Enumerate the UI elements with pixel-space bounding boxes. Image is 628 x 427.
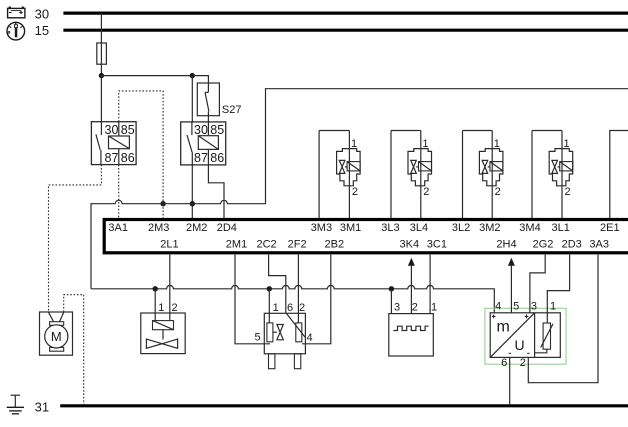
svg-text:6: 6: [501, 357, 507, 369]
svg-text:2G2: 2G2: [533, 238, 554, 250]
svg-text:3L3: 3L3: [381, 222, 399, 234]
svg-text:2H4: 2H4: [496, 238, 516, 250]
wire ECU 2M1 to N71 pin5: [235, 255, 270, 344]
idle actuator N71: [254, 302, 312, 368]
wire G70 pin5 to ECU 2H4: [510, 262, 512, 313]
dotted wire node to ECU pin 2M3: [162, 204, 164, 218]
motor M: [40, 312, 73, 355]
svg-text:1: 1: [351, 138, 357, 150]
svg-text:2E1: 2E1: [600, 222, 620, 234]
wire G70 pin2 to ECU 3A3: [528, 255, 598, 383]
svg-text:2M2: 2M2: [186, 222, 207, 234]
svg-text:2: 2: [172, 302, 178, 314]
bus 15: [63, 29, 628, 32]
node rail to sensor pin3: [389, 286, 394, 291]
node relay2 branch: [190, 73, 195, 78]
svg-text:1: 1: [494, 138, 500, 150]
svg-text:1: 1: [273, 302, 279, 314]
dotted wire relay1 pin86 to ECU pin 3A1: [118, 165, 120, 218]
svg-text:2B2: 2B2: [325, 238, 345, 250]
wire junction to relay1 pin30: [100, 76, 102, 122]
wire relay2 pin86 to ECU pin 2D4: [208, 165, 224, 218]
node rail junction 2M2: [190, 201, 195, 206]
fuse F: [97, 43, 107, 64]
svg-text:m: m: [497, 319, 510, 336]
wire G70 pin6 to ground bus: [509, 357, 511, 404]
svg-text:U: U: [515, 337, 525, 353]
ignition switch symbol: [7, 22, 25, 40]
svg-text:1: 1: [422, 138, 428, 150]
svg-text:1: 1: [564, 138, 570, 150]
wire rail to N80 pin1: [154, 289, 156, 321]
wire supply rail upper: [91, 89, 628, 289]
wire fuse to junction: [100, 64, 102, 75]
wire rail to N71 pin1: [268, 289, 270, 323]
svg-text:87: 87: [194, 151, 208, 165]
wire sensor pin2 to ECU 3K4: [410, 262, 412, 314]
wire bus30 to fuse: [100, 13, 102, 43]
speed sensor G: [389, 301, 437, 356]
wire ECU 2B2 to N71 pin4: [302, 255, 331, 344]
node rail junction 2M3: [160, 201, 165, 206]
svg-text:2F2: 2F2: [288, 238, 307, 250]
node fuse junction: [99, 73, 104, 78]
svg-text:5: 5: [254, 332, 260, 344]
relay 1: [91, 122, 136, 165]
wire junction to S27: [101, 76, 208, 83]
svg-text:5: 5: [513, 300, 519, 312]
svg-text:1: 1: [431, 301, 437, 313]
wire branch to relay2 pin30: [191, 76, 193, 122]
node rail to N71 pin1: [267, 286, 272, 291]
svg-text:3M4: 3M4: [519, 222, 540, 234]
svg-text:30: 30: [194, 123, 208, 137]
solenoid valve Y4: [532, 131, 573, 219]
wire ECU 2G2 to G70 pin3: [530, 255, 545, 313]
svg-text:3L4: 3L4: [410, 222, 428, 234]
svg-text:2: 2: [352, 186, 358, 198]
svg-text:3K4: 3K4: [400, 238, 420, 250]
svg-text:2: 2: [412, 301, 418, 313]
wire supply rail lower: [91, 285, 494, 312]
svg-text:2M1: 2M1: [226, 238, 247, 250]
svg-text:2L1: 2L1: [160, 238, 178, 250]
svg-text:2C2: 2C2: [257, 238, 277, 250]
node rail to N80 pin1: [153, 286, 158, 291]
svg-text:2: 2: [564, 186, 570, 198]
wire valve5 partial: [610, 131, 628, 219]
svg-text:2: 2: [423, 186, 429, 198]
ground symbol: [7, 395, 24, 414]
svg-text:1: 1: [550, 300, 556, 312]
svg-text:S27: S27: [222, 104, 242, 116]
solenoid N80: [141, 302, 185, 353]
svg-text:85: 85: [210, 123, 224, 137]
svg-text:3M3: 3M3: [311, 222, 332, 234]
svg-text:3A1: 3A1: [108, 222, 128, 234]
bus 30: [63, 12, 628, 15]
svg-text:86: 86: [210, 151, 224, 165]
svg-text:3: 3: [394, 301, 400, 313]
svg-text:2D4: 2D4: [217, 222, 237, 234]
arrow into 2H4: [508, 258, 515, 266]
switch S27: [197, 83, 219, 116]
svg-text:87: 87: [105, 151, 119, 165]
dashed wire relay1 pin87 to motor: [49, 165, 102, 312]
dashed wire motor to ground: [64, 295, 84, 405]
wire S27 to relay2 pin85: [207, 116, 209, 122]
wire ECU 2C2 to N71 pin6: [269, 255, 286, 314]
svg-text:2: 2: [495, 186, 501, 198]
wire ECU 2F2 to N71 pin2: [297, 255, 299, 323]
dotted wire relay1 pin85 to node 2M3: [119, 91, 163, 204]
wire rail to sensor pin3: [390, 289, 392, 314]
svg-text:4: 4: [495, 300, 501, 312]
svg-text:31: 31: [35, 400, 49, 415]
wire relay2 pin87 to ECU pin 2M2: [191, 165, 193, 218]
svg-text:30: 30: [35, 6, 49, 21]
svg-text:3M2: 3M2: [479, 222, 500, 234]
svg-text:3A3: 3A3: [589, 238, 609, 250]
svg-text:3M1: 3M1: [340, 222, 361, 234]
svg-text:3L2: 3L2: [452, 222, 470, 234]
air flow meter G70: [485, 300, 566, 368]
svg-text:15: 15: [35, 23, 49, 38]
battery symbol: [8, 7, 25, 18]
svg-text:2: 2: [520, 357, 526, 369]
svg-text:30: 30: [105, 123, 119, 137]
wire ECU 2D3 to G70 pin1: [547, 255, 569, 313]
bus 31: [60, 404, 628, 407]
svg-text:M: M: [51, 329, 62, 344]
svg-text:86: 86: [121, 151, 135, 165]
svg-text:2D3: 2D3: [562, 238, 582, 250]
svg-text:3C1: 3C1: [427, 238, 447, 250]
relay 2: [181, 122, 226, 165]
ECU box: [104, 220, 628, 253]
svg-text:2M3: 2M3: [148, 222, 169, 234]
arrow into 3K4: [408, 258, 415, 266]
wire sensor pin1 to ECU 3C1: [429, 255, 431, 314]
svg-text:4: 4: [306, 332, 312, 344]
svg-text:6: 6: [287, 302, 293, 314]
svg-text:3L1: 3L1: [552, 222, 570, 234]
svg-text:85: 85: [121, 123, 135, 137]
solenoid valve Y2: [391, 131, 432, 219]
wire ECU 2L1 to N80 pin2: [169, 255, 171, 321]
svg-text:2: 2: [299, 302, 305, 314]
solenoid valve Y1: [319, 131, 360, 219]
solenoid valve Y3: [463, 131, 503, 219]
svg-text:3: 3: [531, 300, 537, 312]
svg-text:1: 1: [158, 302, 164, 314]
